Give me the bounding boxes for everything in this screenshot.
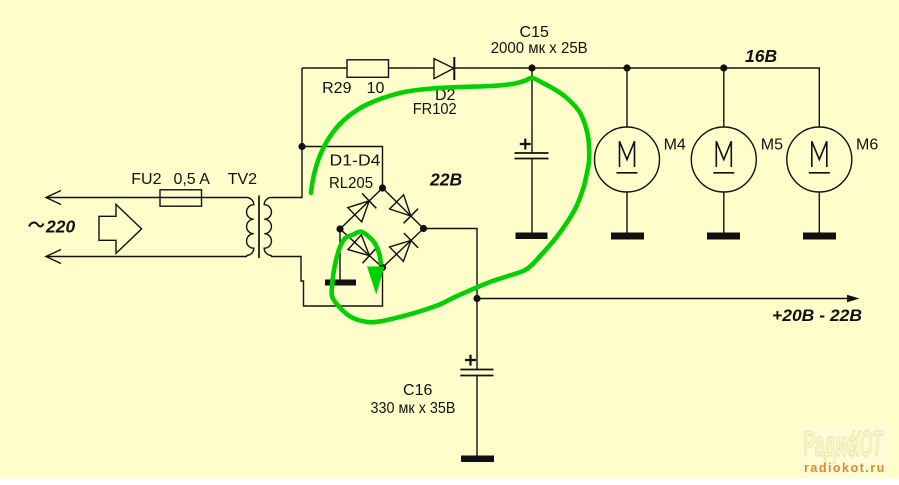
wire R29 to D2 <box>389 67 435 69</box>
ground bar (C16) <box>461 456 494 463</box>
wire motor M4 drop <box>626 68 628 127</box>
diode D2b (top-right) triangle <box>390 195 411 216</box>
wire bridge right node to output node <box>424 229 478 300</box>
node: C15 top <box>528 64 535 71</box>
watermark box <box>801 424 889 474</box>
wire M6 to ground <box>818 192 820 233</box>
wire output node down to C16 <box>476 299 478 370</box>
node: M5 top <box>720 64 727 71</box>
motor M5 letter M <box>713 141 734 173</box>
wire M4 to ground <box>626 192 628 233</box>
svg-text:R29: R29 <box>322 80 351 97</box>
wire secondary top to junction node <box>271 68 302 198</box>
diode D4 bar <box>404 233 418 248</box>
wire output line <box>477 298 849 300</box>
transformer TV2 primary winding <box>247 198 254 257</box>
diode D1 bar <box>362 193 376 208</box>
wire bridge left node to ground <box>339 229 341 280</box>
svg-text:RL205: RL205 <box>329 175 373 192</box>
capacitor C15 plus sign <box>520 139 531 150</box>
svg-text:C16: C16 <box>403 382 432 399</box>
motor M6 letter M <box>809 141 830 173</box>
node: bridge left <box>336 225 343 232</box>
green annotation loop <box>311 78 589 322</box>
wire motor M5 drop <box>723 68 725 127</box>
transformer TV2 secondary winding <box>264 198 271 257</box>
capacitor C15 plates <box>515 152 549 154</box>
diode D2 cathode bar <box>453 57 455 80</box>
svg-text:+20В - 22В: +20В - 22В <box>772 306 862 325</box>
svg-text:220: 220 <box>45 217 75 237</box>
capacitor C16 plus sign <box>465 355 476 366</box>
wire C15 node down to plates <box>531 68 533 153</box>
diode D2 triangle <box>434 59 454 79</box>
node: M4 top <box>623 64 630 71</box>
green annotation arrowhead <box>367 267 385 295</box>
motor M4 circle <box>595 127 660 192</box>
svg-text:M4: M4 <box>664 137 686 154</box>
svg-text:10: 10 <box>367 80 385 97</box>
svg-text:2000 мк х 25В: 2000 мк х 25В <box>491 40 588 57</box>
wire C16 to ground <box>476 376 478 456</box>
svg-text:Радио: Радио <box>803 424 857 465</box>
svg-text:TV2: TV2 <box>228 171 257 188</box>
svg-text:330 мк х 35В: 330 мк х 35В <box>371 400 456 417</box>
svg-text:radiokot.ru: radiokot.ru <box>804 461 886 475</box>
diode D2b bar <box>404 209 419 224</box>
svg-text:M6: M6 <box>856 137 878 154</box>
motor M6 circle <box>787 127 852 192</box>
diode D3 bar <box>363 248 377 263</box>
node: bridge right <box>420 225 427 232</box>
block arrow (mains direction) <box>99 204 142 253</box>
svg-text:D1-D4: D1-D4 <box>330 153 381 170</box>
wire top rail 16V <box>302 67 347 69</box>
svg-text:16В: 16В <box>745 46 777 66</box>
svg-text:FR102: FR102 <box>413 101 457 118</box>
svg-text:0,5 A: 0,5 A <box>173 171 210 188</box>
svg-text:22В: 22В <box>429 170 462 190</box>
svg-text:C15: C15 <box>520 24 549 41</box>
diode D4 (bottom-right) triangle <box>390 240 411 261</box>
arrow AC bottom-left open arrowhead <box>46 250 61 264</box>
ground bar (M6) <box>803 233 836 240</box>
ground bar (M4) <box>611 233 644 240</box>
diode D1 (left-top) triangle <box>348 201 369 222</box>
motor M4 letter M <box>617 141 638 173</box>
wire AC bottom line <box>46 256 247 258</box>
resistor R29 body <box>347 60 389 78</box>
wire M5 to ground <box>723 192 725 233</box>
wire C15 to ground <box>531 159 533 233</box>
svg-text:M5: M5 <box>761 137 783 154</box>
ground bar (M5) <box>707 233 740 240</box>
wire D2 to rail end <box>454 68 819 127</box>
output arrowhead <box>847 295 860 302</box>
bridge diamond edges <box>340 188 424 268</box>
motor M5 circle <box>691 127 756 192</box>
transformer TV2 core <box>258 196 260 259</box>
tilde of ~220 <box>29 222 44 226</box>
svg-text:КОТ: КОТ <box>850 424 884 464</box>
node: junction secondary/bridge <box>298 143 305 150</box>
node: bridge bottom <box>379 264 386 271</box>
wire secondary bottom to bridge bottom <box>271 257 383 307</box>
node: bridge top <box>379 184 386 191</box>
wire AC top line <box>46 197 247 199</box>
wire junction to bridge top <box>302 147 383 189</box>
capacitor C16 plates <box>460 369 493 371</box>
diode D3 (left-bottom) triangle <box>348 235 370 256</box>
svg-text:FU2: FU2 <box>131 171 161 188</box>
ground bar (bridge) <box>325 280 356 286</box>
ground bar (C15) <box>516 233 548 240</box>
arrow AC top-left open arrowhead <box>46 191 61 205</box>
fuse FU2 body <box>160 190 202 206</box>
node: output <box>473 295 480 302</box>
